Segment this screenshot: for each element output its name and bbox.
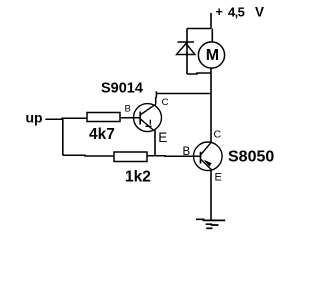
svg-text:B: B: [183, 146, 191, 158]
wire supply stub: [211, 13, 212, 43]
wire Q1 collector stub: [155, 91, 158, 104]
transistor Q2 base bar: [200, 152, 202, 164]
wire diode branch vertical: [186, 29, 188, 75]
wire Q1 emitter vertical: [154, 130, 156, 156]
wire R1 to Q1 base: [120, 117, 140, 119]
transistor Q1 base bar: [139, 112, 141, 125]
wire left bottom horizontal to R2: [63, 154, 114, 157]
ground bar 3: [206, 227, 212, 229]
ground bar 1: [196, 219, 225, 220]
wire Q1 collector horizontal: [156, 93, 211, 95]
svg-text:E: E: [215, 171, 222, 183]
svg-text:M: M: [206, 47, 219, 64]
transistor Q2 collector diagonal: [201, 143, 211, 155]
transistor Q2 arrow tail dash: [207, 163, 211, 165]
wire up to junction: [45, 118, 87, 119]
transistor Q1 S9014 circle: [134, 104, 162, 132]
wire main vertical motor to Q2 collector: [210, 68, 212, 143]
svg-text:E: E: [158, 130, 167, 145]
transistor Q2 emitter arrowhead: [205, 161, 212, 167]
svg-text:B: B: [125, 104, 131, 115]
resistor R2 1k2 body: [114, 152, 147, 162]
transistor Q2 S8050 circle: [194, 142, 223, 171]
svg-text:C: C: [214, 129, 222, 141]
svg-text:4k7: 4k7: [89, 126, 115, 143]
wire diode branch bottom horizontal: [187, 73, 211, 74]
wire left vertical: [62, 119, 64, 155]
ground bar 2: [206, 223, 219, 226]
svg-text:1k2: 1k2: [125, 169, 151, 186]
motor M1 circle: [198, 42, 224, 68]
transistor Q2 emitter diagonal: [201, 160, 212, 171]
svg-text:C: C: [162, 97, 169, 108]
svg-text:+: +: [216, 5, 223, 19]
svg-text:4,5: 4,5: [228, 5, 245, 20]
resistor R1 4k7 body: [87, 113, 120, 122]
svg-text:S8050: S8050: [228, 149, 274, 166]
wire top branch horizontal: [187, 28, 211, 30]
diode D1 flyback cathode bar: [178, 41, 195, 43]
svg-text:S9014: S9014: [101, 81, 143, 97]
transistor Q1 emitter arrowhead: [146, 120, 152, 127]
wire Q2 emitter to ground: [210, 170, 212, 221]
transistor Q1 emitter diagonal: [141, 119, 153, 130]
svg-text:V: V: [255, 5, 264, 20]
wire R2 to Q2 base: [147, 155, 200, 158]
diode D1 flyback triangle: [177, 44, 196, 55]
svg-text:up: up: [26, 110, 43, 126]
transistor Q1 collector diagonal: [141, 104, 156, 114]
